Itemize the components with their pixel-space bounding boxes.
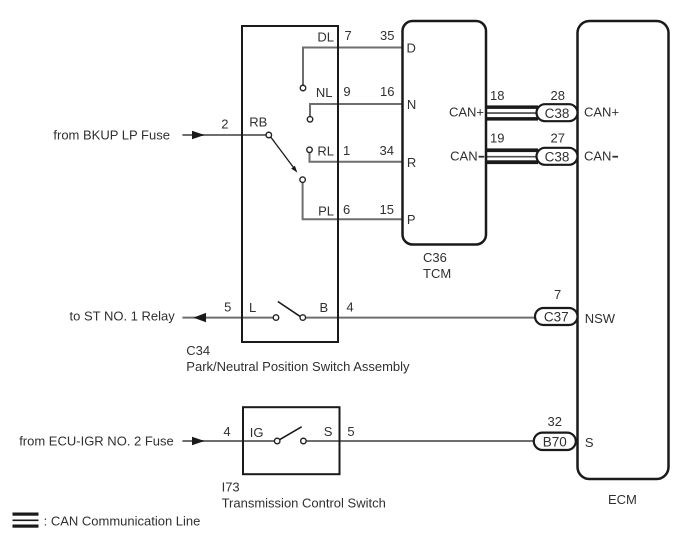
label TCM (423, 266, 451, 281)
svg-text:5: 5 (224, 300, 231, 315)
arrow to ST NO. 1 Relay (193, 313, 206, 322)
pin number 4 (B) (346, 300, 353, 315)
svg-text:D: D (407, 41, 416, 56)
switch blade L-B (278, 302, 300, 317)
svg-text:ECM: ECM (608, 492, 637, 507)
legend CAN symbol triple line (13, 513, 39, 528)
label Park/Neutral Position Switch Assembly (186, 359, 410, 374)
wire RL (310, 153, 403, 162)
svg-text:32: 32 (548, 414, 562, 429)
svg-text:4: 4 (346, 300, 353, 315)
pin number 15 (P) (380, 202, 394, 217)
svg-text:: CAN Communication Line: : CAN Communication Line (44, 514, 201, 529)
pin label NL (316, 85, 333, 100)
svg-text:DL: DL (317, 30, 334, 45)
pin number 19 (490, 130, 504, 145)
wire DL (303, 48, 402, 86)
label C34 (186, 343, 210, 358)
pin number 28 (551, 88, 565, 103)
pin label IG (250, 425, 264, 440)
svg-text:2: 2 (221, 117, 228, 132)
pin number 5 (L) (224, 300, 231, 315)
contact DL circle (300, 85, 306, 91)
svg-text:S: S (585, 435, 594, 450)
svg-text:34: 34 (380, 143, 394, 158)
svg-text:CAN: CAN (584, 149, 611, 164)
I73 Transmission Control Switch box (243, 407, 340, 474)
svg-text:R: R (407, 155, 416, 170)
svg-text:N: N (407, 97, 416, 112)
wire from BKUP LP Fuse to RB pin (182, 134, 266, 136)
wire S row: from ECU-IGR NO.2 Fuse through IG-S switch to B70 (182, 440, 533, 442)
pin label S switch (324, 424, 333, 439)
pin number 1 (RL) (343, 143, 350, 158)
svg-text:RL: RL (317, 143, 334, 158)
svg-text:16: 16 (380, 84, 394, 99)
svg-text:27: 27 (551, 130, 565, 145)
svg-text:6: 6 (343, 202, 350, 217)
pin number 34 (R) (380, 143, 394, 158)
selector common RB circle (266, 132, 272, 138)
svg-text:C36: C36 (423, 250, 447, 265)
svg-text:C38: C38 (545, 106, 570, 121)
pin label R (407, 155, 416, 170)
svg-text:to ST NO. 1 Relay: to ST NO. 1 Relay (70, 309, 176, 324)
connector C38 CAN- oval (537, 148, 578, 165)
pin label NSW (585, 311, 616, 326)
wire NL (310, 104, 402, 117)
svg-text:9: 9 (343, 84, 350, 99)
connector B70 S oval (534, 433, 576, 450)
switch L contact circle (273, 315, 279, 321)
pin label B (320, 300, 329, 315)
pin number 6 (PL) (343, 202, 350, 217)
pin label PL (318, 204, 334, 219)
svg-text:I73: I73 (222, 479, 240, 494)
pin number 16 (N) (380, 84, 394, 99)
svg-text:CAN+: CAN+ (584, 105, 619, 120)
TCM C36 box (403, 21, 487, 245)
pin number 5 (S) (347, 424, 354, 439)
svg-text:Transmission Control Switch: Transmission Control Switch (222, 496, 386, 511)
svg-text:from BKUP LP Fuse: from BKUP LP Fuse (53, 128, 170, 143)
contact NL circle (307, 117, 313, 123)
ECM box (578, 21, 669, 479)
svg-text:1: 1 (343, 143, 350, 158)
switch S contact circle (301, 438, 307, 444)
pin label D (407, 41, 416, 56)
svg-text:7: 7 (554, 287, 561, 302)
svg-text:C34: C34 (186, 343, 210, 358)
svg-text:Park/Neutral Position Switch A: Park/Neutral Position Switch Assembly (186, 359, 410, 374)
selector arm with arrowhead (271, 137, 298, 173)
connector C38 CAN+ oval (537, 104, 578, 121)
pin label L (249, 300, 256, 315)
svg-text:NL: NL (316, 85, 333, 100)
pin number 7 (NSW) (554, 287, 561, 302)
pin label RB (249, 115, 267, 130)
svg-text:RB: RB (249, 115, 267, 130)
pin label RL (317, 143, 334, 158)
contact RL circle (307, 147, 313, 153)
wire NSW row: to ST NO.1 Relay through L-B switch to C37 (182, 317, 535, 319)
pin label N (407, 97, 416, 112)
svg-text:5: 5 (347, 424, 354, 439)
CAN+ triple line (486, 105, 538, 120)
connector C37 NSW oval (535, 308, 578, 325)
pin number 7 (DL) (345, 28, 352, 43)
label Transmission Control Switch (222, 496, 386, 511)
pin number 4 (IG) (223, 424, 230, 439)
pin number 35 (D) (380, 28, 394, 43)
svg-text:C38: C38 (545, 150, 570, 165)
pin number 18 (490, 88, 504, 103)
switch IG contact circle (274, 438, 280, 444)
pin label CAN+ ECM (584, 105, 619, 120)
switch blade IG-S (280, 427, 302, 440)
svg-text:B: B (320, 300, 329, 315)
label ECM (608, 492, 637, 507)
label from ECU-IGR NO. 2 Fuse (19, 434, 174, 449)
svg-text:28: 28 (551, 88, 565, 103)
svg-text:CAN+: CAN+ (449, 105, 484, 120)
pin label P (407, 212, 416, 227)
C34 Park/Neutral Position Switch Assembly box (242, 26, 338, 342)
svg-text:S: S (324, 424, 333, 439)
wire PL (303, 183, 402, 220)
pin label S ECM (585, 435, 594, 450)
svg-text:4: 4 (223, 424, 230, 439)
pin number 9 (NL) (343, 84, 350, 99)
pin label DL (317, 30, 334, 45)
pin number 2 (221, 117, 228, 132)
label I73 (222, 479, 240, 494)
switch B contact circle (300, 315, 306, 321)
label C36 (423, 250, 447, 265)
contact PL circle (300, 177, 306, 183)
svg-text:15: 15 (380, 202, 394, 217)
svg-text:TCM: TCM (423, 266, 451, 281)
pin number 27 (551, 130, 565, 145)
svg-text:L: L (249, 300, 256, 315)
svg-text:18: 18 (490, 88, 504, 103)
svg-text:B70: B70 (543, 434, 567, 449)
legend text CAN Communication Line (44, 514, 201, 529)
CAN- triple line (486, 148, 538, 164)
arrow into RB wire (192, 131, 205, 140)
svg-text:P: P (407, 212, 416, 227)
svg-text:CAN: CAN (450, 149, 477, 164)
pin number 32 (548, 414, 562, 429)
pin label CAN+ TCM (449, 105, 484, 120)
label to ST NO. 1 Relay (70, 309, 176, 324)
svg-text:7: 7 (345, 28, 352, 43)
svg-text:IG: IG (250, 425, 264, 440)
svg-text:35: 35 (380, 28, 394, 43)
svg-text:C37: C37 (544, 310, 569, 325)
pin label CAN- ECM (584, 149, 618, 164)
arrow into IG wire (192, 437, 205, 446)
label from BKUP LP Fuse (53, 128, 170, 143)
svg-text:PL: PL (318, 204, 334, 219)
pin label CAN- TCM (450, 149, 484, 164)
svg-text:from ECU-IGR NO. 2 Fuse: from ECU-IGR NO. 2 Fuse (19, 434, 174, 449)
svg-text:NSW: NSW (585, 311, 616, 326)
svg-text:19: 19 (490, 130, 504, 145)
